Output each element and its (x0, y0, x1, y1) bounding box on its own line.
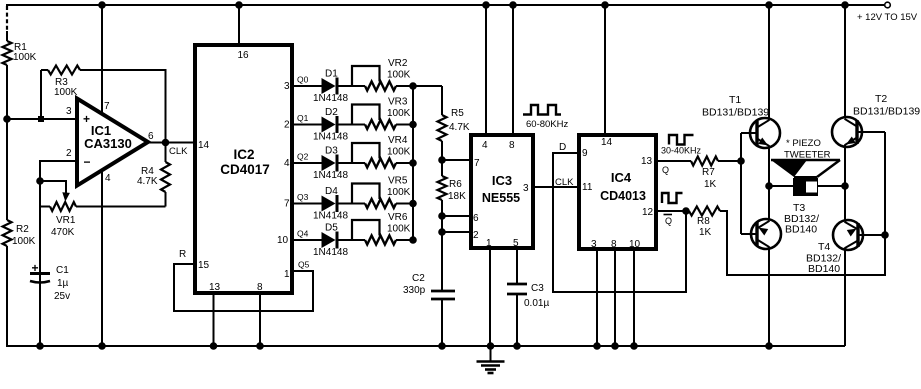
resistor R7 1K (691, 157, 718, 166)
label BD131/BD139 (T1) (702, 107, 769, 119)
wire: IC4 pin14 to rail (604, 5, 606, 135)
diode D1 1N4148 (322, 78, 338, 95)
svg-text:R: R (179, 249, 186, 260)
pin 12 label (642, 207, 654, 218)
pin 1 label (486, 238, 492, 249)
svg-text:VR1: VR1 (56, 215, 76, 226)
wire: IC3 pin5 to C3 (516, 248, 518, 284)
flip-flop IC4 CD4013 (579, 135, 656, 249)
svg-text:CD4017: CD4017 (220, 162, 270, 177)
svg-text:9: 9 (582, 148, 588, 159)
svg-text:* PIEZO: * PIEZO (786, 138, 821, 149)
squarewave icon (Q-bar) (662, 193, 683, 203)
svg-text:+: + (83, 112, 90, 126)
pin 4 label (105, 173, 111, 184)
wire: R2 top (6, 119, 8, 220)
node: bus junction Q0 (409, 82, 417, 90)
pin 3 label (523, 183, 529, 194)
resistor R6 (438, 176, 447, 200)
wire: C2 to ground rail (441, 299, 443, 346)
pin 2 label (473, 230, 479, 241)
supply terminal (885, 2, 891, 8)
svg-text:4: 4 (482, 140, 488, 151)
pin 8 label (509, 140, 515, 151)
label 1N4148 (D1) (313, 93, 348, 104)
wire: IC3 pin4 to rail (485, 5, 487, 135)
label D2 (325, 107, 338, 118)
svg-text:100K: 100K (387, 108, 411, 119)
label 1N4148 (D2) (313, 132, 348, 143)
svg-text:1N4148: 1N4148 (313, 247, 348, 258)
svg-text:R2: R2 (16, 224, 29, 235)
label R reset (179, 249, 186, 260)
svg-text:13: 13 (209, 282, 221, 293)
pin 3 label (66, 106, 72, 117)
node: bus junction Q3 (409, 200, 417, 208)
node: IC3 pin2 junction (438, 228, 446, 236)
svg-text:VR6: VR6 (388, 212, 408, 223)
label T3 (793, 202, 805, 214)
wire: R7 to base node (718, 160, 741, 162)
svg-text:11: 11 (582, 182, 593, 193)
node: bus junction Q2 (409, 159, 417, 167)
svg-text:BD131/BD139: BD131/BD139 (702, 107, 769, 119)
wire: VR2 to bus (396, 85, 413, 87)
svg-text:1: 1 (284, 269, 290, 280)
svg-text:IC2: IC2 (233, 147, 254, 162)
node: pin2 feedback junction (36, 177, 44, 185)
label CLK (IC4) (555, 177, 574, 188)
wire: dashed sensor input stub (6, 6, 8, 31)
resistor R3 (48, 66, 80, 75)
resistor R1 (3, 41, 12, 65)
wire: VR1 to R4 (76, 206, 166, 208)
svg-text:D1: D1 (325, 69, 338, 80)
pin 10 label (629, 239, 641, 250)
wire: IC2 pin 4 to D3 (292, 162, 322, 164)
svg-text:VR4: VR4 (388, 135, 408, 146)
label R8 1K (697, 216, 712, 238)
op-amp U1 IC1 CA3130 (77, 99, 148, 186)
label R1 100K (13, 42, 37, 63)
wire: op-amp pin7 to rail (101, 5, 103, 114)
svg-text:60-80KHz: 60-80KHz (526, 119, 568, 130)
node: IC3 pin6 junction (438, 212, 446, 220)
wire: bus to R5 (413, 85, 442, 87)
svg-text:330p: 330p (403, 285, 426, 296)
label Q-bar (664, 215, 673, 227)
wire: piezo bridge node (769, 185, 845, 187)
svg-text:CA3130: CA3130 (84, 136, 132, 151)
node: R5/R6 junction (pin7) (438, 156, 446, 164)
svg-text:470K: 470K (51, 227, 75, 238)
diode D2 1N4148 (322, 116, 338, 133)
node: pin1 ground junction (487, 342, 495, 350)
svg-text:4: 4 (105, 173, 111, 184)
svg-text:8: 8 (611, 239, 617, 250)
label T2 (875, 93, 887, 105)
pin 6 label (148, 131, 154, 142)
svg-text:BD131/BD139: BD131/BD139 (853, 106, 920, 118)
pin 3 label (284, 81, 290, 92)
svg-text:R5: R5 (451, 108, 464, 119)
wire: IC3 pin3 to IC4 pin11 (533, 186, 579, 188)
svg-text:100K: 100K (387, 224, 411, 235)
wire: T1 emitter to piezo node (768, 146, 770, 186)
svg-text:1µ: 1µ (57, 278, 69, 289)
pin 7 label (474, 158, 480, 169)
wire: IC2 pin8 to ground (256, 293, 264, 350)
wire: R6 to C2 (441, 200, 443, 291)
wire: R3 feedback to output (80, 70, 166, 143)
node: T4 base junction (881, 231, 889, 239)
label +12V TO 15V (857, 12, 918, 23)
svg-text:T4: T4 (818, 241, 830, 253)
svg-text:C3: C3 (531, 283, 544, 294)
node: piezo right (841, 182, 849, 190)
svg-text:7: 7 (474, 158, 480, 169)
wire: pin2 junction to C1 (39, 181, 41, 346)
svg-text:1N4148: 1N4148 (313, 211, 348, 222)
trimmer VR5 100K (352, 184, 396, 209)
svg-text:D2: D2 (325, 107, 338, 118)
label Q5 (298, 260, 310, 270)
capacitor C2 (403, 273, 455, 299)
pin 5 label (513, 238, 519, 249)
wire: junction to IC3 pin7 (442, 159, 471, 161)
node: op-amp pin4 ground junction (98, 342, 106, 350)
wire: IC3 pin1 to ground (489, 248, 491, 346)
svg-text:Q0: Q0 (297, 75, 309, 85)
node: rail junction at IC3 pin8 (509, 1, 517, 9)
wire: IC2 pin 2 to D2 (292, 124, 322, 126)
svg-text:CD4013: CD4013 (600, 189, 646, 203)
pin 13 label (641, 156, 653, 167)
wire: R8 to T2/T4 base node (720, 132, 885, 275)
wire: D1 to VR2 (339, 85, 366, 87)
svg-text:8: 8 (509, 140, 515, 151)
svg-text:4.7K: 4.7K (137, 176, 158, 187)
svg-text:+: + (31, 261, 38, 275)
wire: IC4 pin13 Q to R7 (656, 160, 691, 162)
pin 7 label (284, 199, 290, 210)
svg-text:10: 10 (629, 239, 641, 250)
node: rail junction at IC4 pin14 (601, 1, 609, 9)
squarewave icon 60-80KHz (523, 105, 561, 115)
svg-text:5: 5 (513, 238, 519, 249)
wire: op-amp pin2 lead (40, 161, 77, 181)
svg-text:18K: 18K (448, 191, 466, 202)
wire: junction to IC3 pin6 (442, 215, 471, 217)
pin 2 label (66, 148, 72, 159)
wire: Q5 to reset loop (174, 264, 313, 311)
piezo tweeter (771, 160, 840, 196)
svg-text:15: 15 (198, 260, 210, 271)
pin 13 label (209, 282, 221, 293)
svg-text:100K: 100K (54, 87, 78, 98)
wire: IC4 pin8 to ground (611, 249, 619, 350)
svg-text:Q: Q (665, 216, 672, 226)
label VR6 100K (387, 212, 411, 235)
svg-text:3: 3 (284, 81, 290, 92)
svg-text:Q5: Q5 (298, 260, 310, 270)
svg-text:25v: 25v (54, 291, 70, 302)
wire: R6 top lead (441, 160, 443, 176)
svg-text:C2: C2 (412, 273, 425, 284)
pin 10 label (277, 235, 289, 246)
wire: IC4 pin9 D feedback loop (553, 153, 686, 292)
svg-text:2: 2 (473, 230, 479, 241)
svg-text:3: 3 (66, 106, 72, 117)
wire: R2 to ground rail (6, 246, 8, 346)
node: C1 ground junction (36, 342, 44, 350)
svg-text:4.7K: 4.7K (449, 122, 470, 133)
svg-text:100K: 100K (387, 187, 411, 198)
wire: D4 to VR5 (339, 203, 366, 205)
node: D to Q-bar junction (682, 207, 690, 215)
wire: R5 top lead (441, 86, 443, 115)
resistor R4 (161, 143, 170, 207)
label CLK (169, 146, 188, 157)
svg-text:30-40KHz: 30-40KHz (661, 146, 702, 156)
svg-text:16: 16 (237, 50, 249, 61)
node: T3 ground junction (765, 342, 773, 350)
wire: R1 to junction (6, 65, 8, 119)
svg-text:−: − (83, 155, 90, 169)
ground symbol (477, 346, 505, 373)
transistor T1 BD131/BD139 (741, 5, 780, 148)
svg-text:CLK: CLK (555, 177, 574, 188)
svg-text:4: 4 (284, 158, 290, 169)
svg-text:100K: 100K (13, 52, 37, 63)
label R7 1K (702, 167, 717, 190)
pin 11 label (582, 182, 593, 193)
svg-text:VR3: VR3 (388, 97, 408, 108)
wire: R5 to junction (441, 141, 443, 160)
node: rail junction at op-amp pin7 (98, 1, 106, 9)
label BD132/BD140 (T3) (784, 213, 819, 236)
svg-text:Q: Q (662, 165, 669, 175)
label D1 (325, 69, 338, 80)
node: rail junction at IC3 pin4 (482, 1, 490, 9)
label D3 (325, 146, 338, 157)
label BD132/BD140 (T4) (806, 253, 841, 276)
svg-text:2: 2 (284, 120, 290, 131)
svg-text:6: 6 (148, 131, 154, 142)
trimmer VR2 100K (352, 66, 396, 91)
wire: IC2 pin 10 to D5 (292, 239, 322, 241)
label Q2 (297, 152, 309, 162)
label VR5 100K (387, 176, 411, 199)
wire: junction to IC3 pin2 (442, 231, 471, 233)
svg-text:BD140: BD140 (785, 224, 817, 236)
resistor R8 1K (689, 207, 720, 216)
svg-text:1N4148: 1N4148 (313, 170, 348, 181)
label 1N4148 (D4) (313, 211, 348, 222)
svg-text:IC4: IC4 (611, 170, 632, 185)
capacitor C3 (507, 283, 549, 309)
pin 4 label (284, 158, 290, 169)
node: piezo left (765, 182, 773, 190)
pin 3 label (591, 239, 597, 250)
wire: IC2 pin16 to rail (238, 5, 240, 45)
label R2 100K (12, 224, 36, 247)
svg-text:2: 2 (66, 148, 72, 159)
wire: T4 collector to ground rail (844, 248, 846, 346)
node: op-amp output junction (162, 139, 170, 147)
transistor T2 BD131/BD139 (832, 5, 885, 147)
svg-text:13: 13 (641, 156, 653, 167)
potentiometer VR1 (40, 202, 76, 211)
svg-text:7: 7 (104, 101, 110, 112)
diode D4 1N4148 (322, 195, 338, 212)
label R5 4.7K (449, 108, 470, 133)
counter IC2 CD4017 (195, 45, 292, 293)
resistor R5 (438, 115, 447, 141)
label 1N4148 (D3) (313, 170, 348, 181)
svg-text:IC3: IC3 (492, 173, 512, 188)
svg-text:Q4: Q4 (297, 229, 309, 239)
wire: IC2 pin13 to ground (210, 293, 218, 350)
wire: D5 to VR6 (339, 239, 366, 241)
label T4 (818, 241, 830, 253)
svg-text:R8: R8 (697, 216, 710, 227)
VR1 wiper arrow (62, 192, 70, 201)
diode D5 1N4148 (322, 232, 338, 249)
svg-text:VR2: VR2 (388, 58, 408, 69)
svg-text:VR5: VR5 (388, 176, 408, 187)
node: C2 ground junction (438, 342, 446, 350)
capacitor C1 (30, 261, 70, 302)
wire: IC2 pin 7 to D4 (292, 203, 322, 205)
trimmer VR4 100K (352, 143, 396, 168)
label 1N4148 (D5) (313, 247, 348, 258)
label D5 (325, 223, 338, 234)
svg-text:14: 14 (601, 137, 613, 148)
label R3 100K (54, 77, 78, 98)
svg-text:NE555: NE555 (482, 191, 520, 205)
svg-text:CLK: CLK (169, 146, 188, 157)
wire: op-amp pin6 to IC2 pin14 (148, 142, 195, 144)
label Q0 (297, 75, 309, 85)
svg-text:3: 3 (523, 183, 529, 194)
label VR1 470K (51, 215, 76, 238)
svg-text:12: 12 (642, 207, 654, 218)
label Q (662, 165, 669, 175)
node: rail junction at IC2 pin16 (235, 1, 243, 9)
label BD131/BD139 (T2) (853, 106, 920, 118)
label R6 18K (448, 179, 466, 202)
wire: D3 to VR4 (339, 162, 366, 164)
wire: IC3 pin8 to rail (512, 5, 514, 135)
svg-text:10: 10 (277, 235, 289, 246)
svg-text:8: 8 (257, 282, 263, 293)
transistor T3 BD132/BD140 (741, 186, 781, 249)
node: T1/T3 base junction (737, 157, 745, 165)
wire: R3 left lead (40, 70, 42, 119)
pin 6 label (473, 213, 479, 224)
svg-text:1K: 1K (699, 227, 712, 238)
resistor R2 (3, 220, 12, 246)
pin 8 label (257, 282, 263, 293)
trimmer VR6 100K (352, 220, 396, 245)
svg-text:R7: R7 (702, 167, 715, 178)
label PIEZO (786, 138, 821, 149)
wire: ground rail (6, 345, 845, 347)
svg-text:Q1: Q1 (297, 113, 309, 123)
timer IC3 NE555 (471, 135, 533, 248)
label Q4 (297, 229, 309, 239)
svg-text:1N4148: 1N4148 (313, 93, 348, 104)
wire: IC4 pin10 to ground (630, 249, 638, 350)
wire: T2 emitter to piezo node (844, 145, 846, 186)
wire: VR3 to bus (396, 124, 413, 126)
wire: VR6 to bus (396, 239, 413, 241)
node: R1/R2 divider junction (3, 115, 11, 123)
pin 2 label (284, 120, 290, 131)
wire: +12V supply rail (6, 4, 884, 6)
wire: C3 to ground (516, 294, 518, 346)
diode D3 1N4148 (322, 155, 338, 172)
wire: VR1 wiper lead (40, 181, 66, 196)
trimmer VR3 100K (352, 105, 396, 130)
svg-text:1: 1 (486, 238, 492, 249)
wire: input to R1 (6, 31, 8, 41)
node: C3 ground junction (513, 342, 521, 350)
svg-text:Q2: Q2 (297, 152, 309, 162)
wire: op-amp pin4 to ground rail (101, 170, 103, 346)
svg-text:14: 14 (198, 140, 210, 151)
wire: IC4 pin3 to ground (593, 249, 601, 350)
svg-text:+ 12V TO 15V: + 12V TO 15V (857, 12, 918, 23)
svg-text:6: 6 (473, 213, 479, 224)
label D (559, 142, 566, 153)
label 60-80KHz (526, 119, 568, 130)
transistor T4 BD132/BD140 (833, 186, 885, 250)
wire: D2 to VR3 (339, 124, 366, 126)
svg-text:D4: D4 (325, 186, 338, 197)
wire: T1/T3 base tie (740, 133, 742, 234)
svg-text:100K: 100K (387, 147, 411, 158)
svg-text:D: D (559, 142, 566, 153)
label Q1 (297, 113, 309, 123)
pin 8 label (611, 239, 617, 250)
pin 16 label (237, 50, 249, 61)
pin 4 label (482, 140, 488, 151)
wire: VR4 to bus (396, 162, 413, 164)
svg-text:1K: 1K (704, 179, 717, 190)
svg-text:0.01µ: 0.01µ (524, 298, 549, 309)
svg-text:T2: T2 (875, 93, 887, 105)
wire: T3 collector to ground rail (768, 247, 770, 346)
wire: IC4 pin12 Q-bar to R8 (656, 210, 689, 212)
svg-text:3: 3 (591, 239, 597, 250)
wire: summing bus (412, 86, 414, 240)
label 30-40KHz (661, 146, 702, 156)
squarewave icon 30-40KHz (669, 135, 694, 145)
svg-text:D3: D3 (325, 146, 338, 157)
label D4 (325, 186, 338, 197)
pin 9 label (582, 148, 588, 159)
label VR2 100K (387, 58, 411, 81)
label T1 (729, 94, 741, 106)
label TWEETER (784, 150, 831, 161)
label R4 4.7K (137, 166, 158, 187)
svg-text:C1: C1 (56, 265, 69, 276)
svg-text:Q3: Q3 (297, 192, 309, 202)
label Q3 (297, 192, 309, 202)
svg-text:100K: 100K (387, 70, 411, 81)
